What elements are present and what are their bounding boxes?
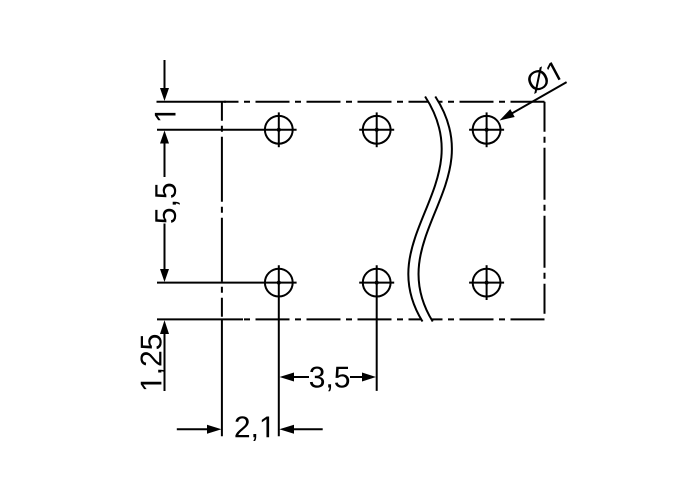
dimension 2,1 right arrow <box>279 425 322 434</box>
dimension 1,25 line <box>160 320 169 391</box>
hole B3 bottom-right <box>469 265 504 300</box>
break line left (wavy) <box>408 97 441 322</box>
break band (white mask between break lines) <box>408 97 452 322</box>
board outline top edge solid extension <box>157 101 227 103</box>
extension line row2 (through hole B1 center) <box>157 282 297 284</box>
leader arrow for diameter <box>500 82 567 120</box>
dim text 3,5 <box>310 367 349 392</box>
dimension 3,5 right arrow <box>350 373 376 382</box>
board outline bottom edge (chain line) <box>240 318 545 320</box>
left edge extension below board <box>221 319 223 436</box>
hole B2 bottom-middle <box>359 265 394 391</box>
dim text 5,5 <box>155 184 179 223</box>
dimension 2,1 left arrow <box>177 425 222 434</box>
hole B1 bottom-left <box>265 265 293 436</box>
board outline top edge (chain line) <box>224 101 545 103</box>
board outline right edge (chain line) <box>544 102 546 320</box>
break line right (wavy) <box>418 97 451 322</box>
dim text diameter 1 <box>524 61 561 94</box>
hole A2 top-middle <box>359 112 394 147</box>
dim text 1,25 <box>140 335 165 389</box>
dim text 2,1 <box>235 416 269 441</box>
hole A1 top-left <box>265 112 293 147</box>
board outline bottom edge solid extension <box>157 318 243 320</box>
board outline left edge (chain line) <box>221 102 223 320</box>
dimension 3,5 left arrow <box>280 373 310 382</box>
dimension 1 line <box>160 60 169 101</box>
dim text 1 <box>155 113 176 120</box>
dimension 5,5 line <box>160 131 169 283</box>
hole A3 top-right <box>469 112 504 147</box>
extension line row1 (through hole A1 center) <box>157 129 297 131</box>
